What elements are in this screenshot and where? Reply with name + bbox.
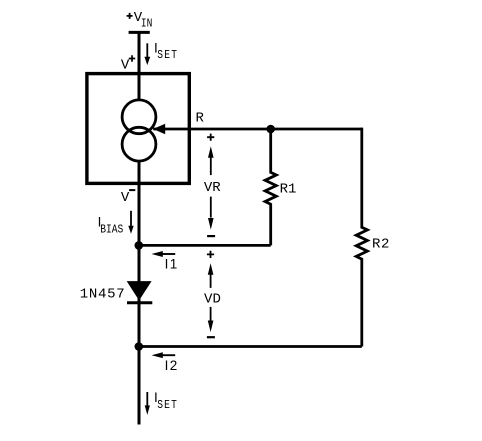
svg-text:V: V — [121, 58, 130, 74]
net label +VIN — [127, 10, 153, 31]
wire R1 bottom horizontal to main line — [139, 244, 271, 247]
current source box U1 — [87, 74, 189, 184]
wire from bottom circle through box bottom to diode and below — [138, 160, 141, 425]
net label V+ — [121, 55, 135, 73]
arrowhead into current source — [153, 124, 165, 135]
svg-text:I1: I1 — [165, 256, 179, 271]
svg-text:1N457: 1N457 — [80, 287, 126, 303]
resistor R2 — [356, 128, 390, 347]
net label V- — [121, 190, 135, 206]
current annotation ISET (top) — [144, 40, 178, 65]
node +VIN terminal bar — [129, 31, 150, 34]
svg-text:SET: SET — [157, 399, 178, 412]
current annotation ISET (bottom) — [145, 390, 178, 415]
wire main vertical: terminal to current-source top — [138, 31, 141, 101]
current annotation IBIAS — [98, 211, 134, 237]
svg-text:SET: SET — [157, 49, 178, 62]
junction node I1 — [135, 241, 144, 250]
svg-text:V: V — [121, 190, 130, 206]
svg-text:IN: IN — [141, 18, 153, 31]
junction node at R1 top — [266, 125, 275, 134]
svg-text:R1: R1 — [280, 182, 297, 198]
wire bottom horizontal to R2 — [139, 345, 362, 348]
diode D1 1N457 — [80, 282, 153, 303]
current annotation I1 — [152, 251, 179, 271]
svg-text:VD: VD — [204, 291, 221, 307]
voltage annotation VR — [204, 134, 221, 237]
current source symbol (two overlapping circles) — [122, 100, 156, 134]
svg-text:VR: VR — [204, 180, 221, 196]
svg-text:BIAS: BIAS — [100, 223, 123, 236]
svg-text:R: R — [195, 111, 204, 127]
svg-text:R2: R2 — [372, 237, 390, 253]
wire R pin horizontal — [153, 128, 362, 131]
resistor R1 — [265, 129, 296, 245]
svg-text:I2: I2 — [165, 358, 179, 373]
voltage annotation VD — [204, 251, 221, 337]
junction node I2 — [135, 342, 144, 351]
current annotation I2 — [152, 352, 179, 373]
